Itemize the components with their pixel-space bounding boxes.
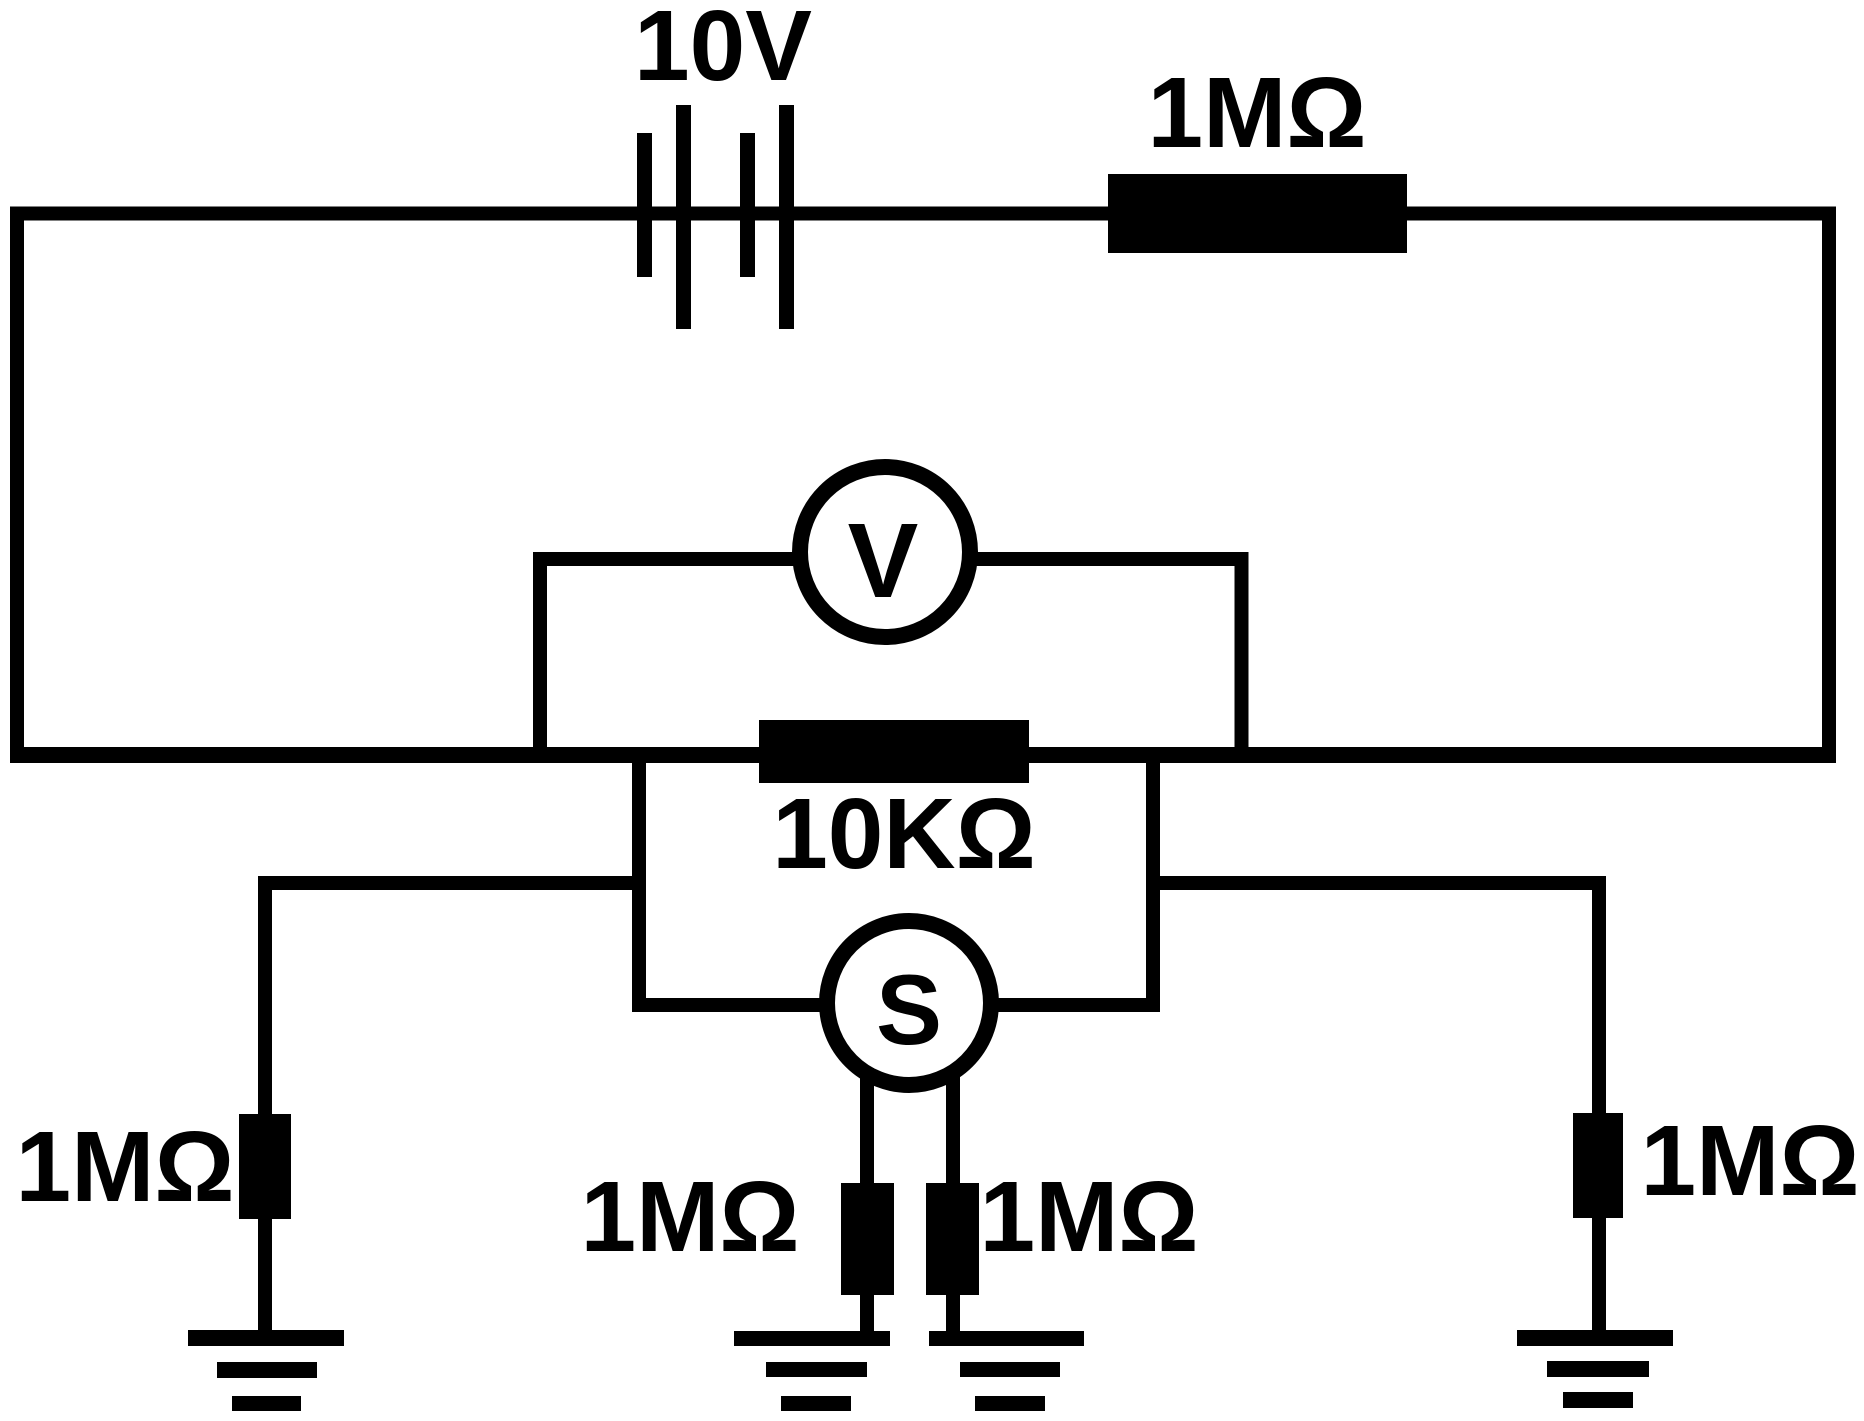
wire left branch (horizontal + vertical down) bbox=[265, 883, 639, 1121]
svg-text:1MΩ: 1MΩ bbox=[1147, 57, 1366, 169]
wire S right leg bbox=[946, 1068, 960, 1190]
battery B1 plate short left bbox=[637, 133, 652, 277]
wire below R6 bbox=[1592, 1212, 1606, 1338]
wire below R4 bbox=[860, 1290, 874, 1338]
svg-text:10V: 10V bbox=[634, 0, 812, 102]
svg-text:1MΩ: 1MΩ bbox=[580, 1161, 799, 1273]
svg-text:S: S bbox=[876, 954, 942, 1065]
svg-text:1MΩ: 1MΩ bbox=[979, 1161, 1198, 1273]
resistor R6 1M ohm (right) bbox=[1573, 1113, 1623, 1218]
wire right branch (horizontal + vertical down) bbox=[1153, 883, 1599, 1120]
svg-text:V: V bbox=[848, 502, 919, 620]
ground (middle left) bbox=[734, 1331, 890, 1411]
resistor R2 10K ohm bbox=[759, 720, 1029, 783]
wire bottom bus bbox=[10, 747, 1836, 763]
wire S loop (left vertical, bottom horizontal, right vertical) bbox=[639, 755, 1153, 1005]
resistor R4 1M ohm (middle left) bbox=[841, 1183, 894, 1295]
resistor R5 1M ohm (middle right) bbox=[926, 1183, 979, 1295]
svg-text:1MΩ: 1MΩ bbox=[1640, 1105, 1859, 1217]
wire below R3 bbox=[258, 1213, 272, 1338]
resistor R1 1M ohm (top) bbox=[1108, 174, 1407, 253]
wire outer loop (top wire, left edge, right edge) bbox=[17, 214, 1829, 756]
voltmeter V body bbox=[800, 467, 970, 637]
battery B1 plate short right bbox=[740, 133, 755, 277]
ground (right) bbox=[1517, 1330, 1673, 1408]
svg-text:1MΩ: 1MΩ bbox=[15, 1111, 234, 1223]
meter S body bbox=[827, 921, 991, 1085]
battery B1 plate tall left bbox=[676, 105, 691, 329]
resistor R3 1M ohm (left) bbox=[239, 1114, 291, 1219]
ground (middle right) bbox=[929, 1331, 1084, 1411]
svg-text:10KΩ: 10KΩ bbox=[772, 778, 1036, 890]
wire S left leg bbox=[860, 1068, 874, 1190]
wire below R5 bbox=[946, 1290, 960, 1338]
battery B1 plate tall right bbox=[779, 105, 794, 329]
ground (left) bbox=[188, 1330, 344, 1411]
wire voltmeter loop (left vertical, top, right vertical) bbox=[540, 559, 1242, 755]
